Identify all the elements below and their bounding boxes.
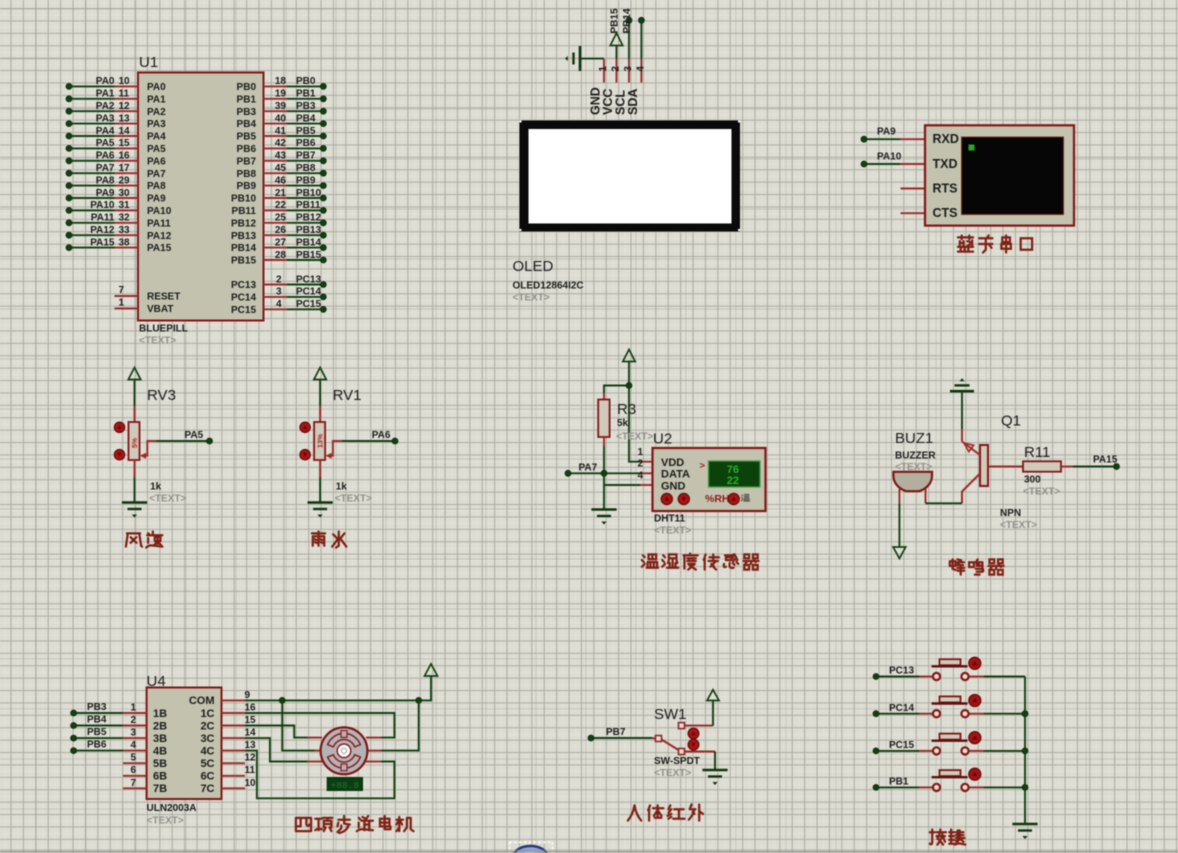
U1 pin PC15 (pin 4) right: [264, 308, 288, 310]
svg-text:PB9: PB9: [296, 175, 316, 186]
U1 pin PA2 (pin 12) left: [69, 110, 115, 112]
U4 pin 1C (pin 16): [222, 712, 246, 714]
svg-text:3B: 3B: [153, 733, 167, 745]
svg-text:PB8: PB8: [296, 163, 316, 174]
svg-text:PA6: PA6: [96, 151, 115, 162]
svg-text:PB10: PB10: [296, 188, 321, 199]
U4 pin 5B (pin 5): [123, 762, 147, 764]
U2 DHT11 body: [653, 448, 766, 511]
svg-text:PA6: PA6: [147, 156, 166, 167]
svg-text:4: 4: [635, 66, 646, 72]
svg-text:13: 13: [119, 113, 131, 124]
svg-text:PB4: PB4: [237, 119, 257, 130]
svg-text:PB13: PB13: [296, 225, 321, 236]
svg-text:<TEXT>: <TEXT>: [654, 768, 691, 779]
wire button PB1 to bus: [969, 786, 984, 788]
stepper motor bottom pole: [328, 755, 361, 769]
wire button PC14 to bus: [969, 713, 984, 715]
svg-text:PA3: PA3: [96, 113, 115, 124]
U4 pin COM (pin 9): [222, 699, 246, 701]
ground flipped (Q1 emitter): [959, 378, 964, 381]
U1 pin PA7 (pin 17) left: [69, 172, 115, 174]
wire COM to motor left-center: [282, 700, 314, 750]
svg-text:PA15: PA15: [1093, 455, 1118, 466]
U4 pin 2B (pin 2): [123, 725, 147, 727]
SW1 bottom throw contact: [679, 749, 685, 755]
RV3 wiper arrow: [140, 453, 146, 459]
RV3 potentiometer body: [129, 422, 140, 460]
svg-text:PA4: PA4: [96, 126, 115, 137]
svg-text:7B: 7B: [153, 783, 167, 795]
svg-text:PC15: PC15: [231, 305, 256, 316]
U1 pin PC14 (pin 3) right: [264, 296, 288, 298]
svg-text:PA9: PA9: [96, 188, 115, 199]
svg-text:R11: R11: [1024, 444, 1050, 461]
SW1 pole contact: [652, 737, 656, 740]
svg-text:GND: GND: [661, 481, 686, 493]
svg-text:PA7: PA7: [147, 169, 166, 180]
wire wiper to PA5: [156, 440, 209, 442]
svg-text:2: 2: [611, 66, 622, 72]
node PB6 terminal: [74, 750, 123, 752]
svg-text:RV3: RV3: [147, 387, 176, 404]
svg-text:PC15: PC15: [296, 299, 321, 310]
U4 pin 6C (pin 11): [222, 775, 246, 777]
buzzer BUZ1 body: [893, 472, 932, 491]
wire 3C to motor left-bottom: [245, 738, 308, 761]
power arrow (RV3): [128, 368, 140, 380]
svg-text:4: 4: [276, 299, 282, 310]
node PA10 terminal: [864, 163, 900, 165]
svg-text:<TEXT>: <TEXT>: [335, 494, 372, 505]
svg-text:1k: 1k: [336, 482, 348, 493]
U4 ULN2003A body: [147, 688, 222, 800]
push button PC14: [919, 713, 932, 715]
svg-text:<TEXT>: <TEXT>: [147, 816, 184, 827]
ground (DHT11): [591, 508, 616, 511]
arrow terminal down (buzzer): [893, 547, 906, 559]
svg-text:1C: 1C: [200, 708, 214, 720]
svg-text:16: 16: [245, 703, 257, 714]
Q1 collector: [962, 474, 980, 504]
svg-text:PA3: PA3: [147, 119, 166, 130]
svg-text:1k: 1k: [150, 482, 162, 493]
DHT11 temperature unit glyph: [741, 494, 749, 501]
button PB1 actuator: [969, 768, 981, 780]
node PA7 terminal: [568, 472, 640, 474]
svg-text:PB10: PB10: [231, 194, 256, 205]
RV1 up actuator button: [300, 422, 310, 432]
svg-text:76: 76: [727, 464, 739, 476]
svg-text:41: 41: [275, 126, 287, 137]
U1 pin PA6 (pin 16) left: [69, 160, 115, 162]
RV3 up actuator button: [114, 422, 124, 432]
U1 pin PA12 (pin 33) left: [69, 234, 115, 236]
svg-text:1B: 1B: [153, 708, 167, 720]
node PB3 terminal: [74, 712, 123, 714]
svg-text:7: 7: [130, 778, 136, 789]
svg-text:PB12: PB12: [296, 213, 321, 224]
svg-text:6B: 6B: [153, 771, 167, 783]
node PA15 terminal: [1114, 464, 1120, 470]
power VCC arrow (OLED): [610, 33, 622, 46]
svg-text:PA1: PA1: [147, 94, 166, 105]
svg-text:31: 31: [119, 200, 131, 211]
OLED pin 2 VCC: [616, 59, 618, 83]
svg-text:2C: 2C: [200, 720, 214, 732]
svg-text:1: 1: [118, 298, 124, 309]
stepper motor angle display: [327, 778, 362, 791]
svg-text:PA1: PA1: [96, 89, 115, 100]
svg-text:<TEXT>: <TEXT>: [139, 336, 176, 347]
transistor Q1 base bar: [980, 445, 988, 486]
junction node COM-left: [279, 698, 285, 704]
svg-text:27: 27: [275, 237, 287, 248]
svg-text:SW-SPDT: SW-SPDT: [654, 756, 700, 767]
DHT11 temperature button: [728, 493, 739, 504]
U1 pin PB10 (pin 21) right: [264, 197, 288, 199]
node PB14 terminal: [640, 20, 642, 59]
svg-text:12: 12: [245, 753, 257, 764]
svg-text:5%: 5%: [132, 437, 139, 448]
svg-text:PA2: PA2: [96, 101, 115, 112]
svg-text:38: 38: [119, 237, 131, 248]
svg-text:RXD: RXD: [933, 132, 959, 146]
U4 pin 1B (pin 1): [123, 712, 147, 714]
U1 pin PB11 (pin 22) right: [264, 209, 288, 211]
svg-text:NPN: NPN: [1000, 508, 1021, 519]
U1 RESET pin 7: [115, 295, 139, 297]
svg-text:22: 22: [275, 200, 287, 211]
svg-text:+88.8: +88.8: [331, 780, 360, 791]
wire button PC15 to bus: [969, 750, 984, 752]
svg-text:PA5: PA5: [147, 144, 166, 155]
svg-text:PB4: PB4: [296, 113, 316, 124]
wire 2C to motor left-top: [245, 726, 308, 738]
svg-text:PA0: PA0: [96, 76, 115, 87]
svg-text:COM: COM: [189, 695, 215, 707]
svg-text:CTS: CTS: [933, 206, 958, 220]
svg-text:PB6: PB6: [296, 138, 316, 149]
svg-text:PB11: PB11: [296, 200, 321, 211]
svg-text:PA8: PA8: [147, 181, 166, 192]
svg-text:<TEXT>: <TEXT>: [654, 526, 691, 537]
svg-text:BUZZER: BUZZER: [895, 450, 936, 461]
U1 pin PB8 (pin 45) right: [264, 172, 288, 174]
svg-text:PB5: PB5: [87, 727, 107, 738]
wire bottom contact to ground: [685, 751, 716, 753]
svg-text:PB12: PB12: [231, 218, 256, 229]
ground (RV1): [308, 501, 333, 504]
svg-text:5B: 5B: [153, 758, 167, 770]
DHT11 humidity up button: [661, 493, 672, 504]
U1 pin PA15 (pin 38) left: [69, 247, 115, 249]
ground (RV3): [122, 501, 147, 504]
svg-text:3: 3: [130, 728, 136, 739]
U4 pin 6B (pin 6): [123, 775, 147, 777]
svg-text:43: 43: [275, 151, 287, 162]
U4 pin 7C (pin 10): [222, 787, 246, 789]
svg-text:SDA: SDA: [626, 89, 640, 115]
junction nodes on bus: [1022, 711, 1028, 717]
RV1 down actuator button: [300, 450, 310, 460]
svg-text:3C: 3C: [200, 733, 214, 745]
bluetooth screen: [962, 137, 1064, 215]
taskbar icon peeking at bottom: [514, 846, 547, 853]
node PA9 terminal: [864, 138, 900, 140]
wire power to R3 top: [604, 386, 629, 394]
DHT11 green display: [709, 461, 761, 487]
svg-text:14: 14: [245, 728, 257, 739]
U1 pin PA8 (pin 29) left: [69, 185, 115, 187]
U1 pin PA3 (pin 13) left: [69, 123, 115, 125]
svg-text:PA5: PA5: [185, 430, 204, 441]
svg-text:DATA: DATA: [661, 469, 690, 481]
svg-text:<TEXT>: <TEXT>: [616, 432, 653, 443]
U4 pin 5C (pin 12): [222, 762, 246, 764]
wire top contact to power: [685, 725, 714, 727]
svg-text:1: 1: [637, 447, 643, 458]
svg-text:33: 33: [119, 225, 131, 236]
svg-text:22: 22: [727, 475, 739, 487]
U1 pin PB14 (pin 27) right: [264, 247, 288, 249]
node PA5 terminal: [207, 438, 213, 444]
svg-text:PB15: PB15: [296, 250, 321, 261]
OLED display white screen: [529, 129, 732, 224]
wire 1C to motor right-top: [245, 713, 394, 738]
RV3 down actuator button: [114, 450, 124, 460]
SW1 actuator buttons: [688, 728, 699, 739]
svg-text:%RH: %RH: [705, 493, 730, 505]
svg-text:PB6: PB6: [87, 740, 107, 751]
svg-text:26: 26: [275, 225, 287, 236]
wire motor right-center to COM: [382, 700, 419, 750]
stepper motor body: [321, 727, 368, 774]
svg-text:4: 4: [130, 740, 136, 751]
svg-text:6: 6: [130, 765, 136, 776]
svg-text:PC13: PC13: [296, 274, 321, 285]
U1 pin PB15 (pin 28) right: [264, 259, 288, 261]
RV1 wiper arrow: [326, 453, 332, 459]
U4 pin 3B (pin 3): [123, 737, 147, 739]
node PB5 terminal: [74, 737, 123, 739]
U1 pin PA0 (pin 10) left: [69, 85, 115, 87]
U4 pin 3C (pin 14): [222, 737, 246, 739]
wire to ground (RV3): [134, 478, 136, 503]
wire button PC13 to bus: [969, 676, 984, 678]
svg-text:3: 3: [623, 66, 634, 72]
U1 pin PB13 (pin 26) right: [264, 234, 288, 236]
svg-text:SW1: SW1: [654, 706, 687, 723]
svg-text:PA2: PA2: [147, 107, 166, 118]
svg-text:11: 11: [119, 89, 130, 100]
bluetooth module body: [925, 125, 1074, 225]
power arrow (RV1): [314, 368, 326, 380]
wire wiper to PA6: [342, 440, 395, 442]
stepper motor pins: [308, 737, 323, 739]
svg-text:PA11: PA11: [147, 218, 171, 229]
svg-text:5: 5: [130, 753, 136, 764]
OLED pin 1 GND: [603, 59, 605, 83]
svg-text:PA11: PA11: [91, 213, 115, 224]
svg-text:PA10: PA10: [877, 152, 902, 163]
U1 pin PB1 (pin 19) right: [264, 98, 288, 100]
wire 4C to motor right-bottom: [245, 751, 394, 799]
push button PB1: [919, 786, 932, 788]
U4 pin 4B (pin 4): [123, 750, 147, 752]
svg-text:19: 19: [275, 89, 287, 100]
svg-text:PA8: PA8: [96, 175, 115, 186]
svg-text:18: 18: [275, 76, 287, 87]
svg-text:40: 40: [275, 113, 287, 124]
svg-text:PB3: PB3: [87, 702, 107, 713]
svg-text:21: 21: [275, 188, 287, 199]
OLED pin 3 SCL: [628, 59, 630, 83]
svg-text:2: 2: [130, 715, 136, 726]
node PC15 terminal: [876, 750, 919, 752]
svg-text:TXD: TXD: [933, 157, 958, 171]
node PB1 terminal: [876, 786, 919, 788]
svg-text:1: 1: [598, 66, 609, 72]
RV3 top lead: [134, 406, 136, 423]
svg-text:3: 3: [276, 287, 282, 298]
svg-text:PA15: PA15: [147, 243, 172, 254]
svg-text:PB3: PB3: [237, 107, 257, 118]
svg-text:42: 42: [275, 138, 287, 149]
svg-text:OLED: OLED: [513, 258, 554, 275]
svg-text:RV1: RV1: [333, 387, 362, 404]
svg-text:PB0: PB0: [237, 82, 257, 93]
svg-text:PA9: PA9: [877, 127, 896, 138]
svg-text:28: 28: [275, 250, 287, 261]
U4 pin 4C (pin 13): [222, 750, 246, 752]
svg-text:11: 11: [245, 765, 256, 776]
svg-text:PB1: PB1: [237, 94, 257, 105]
button PC13 actuator: [969, 657, 981, 669]
U1 pin PB6 (pin 42) right: [264, 147, 288, 149]
svg-text:17: 17: [119, 163, 131, 174]
junction node COM-right: [416, 698, 422, 704]
svg-text:16: 16: [119, 151, 131, 162]
buzzer left pin to arrow terminal: [898, 489, 900, 503]
wire R3 bottom to PA7 net: [603, 446, 605, 473]
svg-text:BUZ1: BUZ1: [895, 430, 933, 447]
svg-text:<TEXT>: <TEXT>: [513, 293, 550, 304]
U1 pin PB4 (pin 40) right: [264, 123, 288, 125]
svg-text:13%: 13%: [318, 433, 325, 448]
buzzer right pin: [925, 489, 927, 503]
svg-text:PB11: PB11: [232, 206, 257, 217]
svg-text:32: 32: [119, 213, 131, 224]
U1 BLUEPILL chip body: [138, 73, 264, 321]
svg-text:15: 15: [119, 138, 131, 149]
svg-text:PC15: PC15: [889, 740, 914, 751]
U1 pin PA10 (pin 31) left: [69, 209, 115, 211]
push button PC13: [919, 676, 932, 678]
svg-text:PA9: PA9: [147, 194, 166, 205]
svg-text:6C: 6C: [200, 771, 214, 783]
stepper motor shaft: [337, 744, 351, 758]
svg-text:45: 45: [275, 163, 287, 174]
caption wind-speed (feng su): [126, 533, 142, 546]
OLED pin 4 SDA: [640, 59, 642, 83]
svg-text:PA5: PA5: [96, 138, 115, 149]
svg-text:15: 15: [245, 715, 257, 726]
svg-text:ULN2003A: ULN2003A: [147, 803, 197, 814]
svg-text:300: 300: [1024, 475, 1041, 486]
svg-text:7C: 7C: [200, 783, 214, 795]
wire power rail down to VDD pin: [629, 386, 640, 462]
U1 pin PA4 (pin 14) left: [69, 135, 115, 137]
svg-text:<TEXT>: <TEXT>: [149, 494, 186, 505]
svg-text:10: 10: [119, 76, 131, 87]
U2 pin 1 VDD: [640, 461, 653, 463]
wire to ground (RV1): [319, 478, 321, 503]
caption temp-humidity sensor (wen shi du chuan gan qi): [642, 554, 658, 567]
svg-text:PB1: PB1: [296, 89, 316, 100]
svg-text:PB4: PB4: [87, 715, 107, 726]
wire PA10 pin TXD: [900, 163, 925, 165]
button PC15 actuator: [969, 732, 981, 744]
svg-text:PB7: PB7: [606, 727, 626, 738]
svg-text:4B: 4B: [153, 745, 167, 757]
svg-text:PA4: PA4: [147, 132, 166, 143]
U2 pin 2 DATA: [640, 472, 653, 474]
svg-text:2B: 2B: [153, 720, 167, 732]
stepper motor top pole: [328, 733, 361, 747]
svg-text:PB5: PB5: [296, 126, 316, 137]
caption 4-phase stepper (si xiang bu jin dian ji): [296, 818, 311, 831]
svg-text:PA6: PA6: [372, 430, 391, 441]
svg-text:PB9: PB9: [237, 181, 257, 192]
svg-text:PC13: PC13: [889, 666, 914, 677]
svg-text:RTS: RTS: [933, 181, 958, 195]
power arrow (SW1): [707, 690, 719, 701]
RV3 bottom lead: [134, 460, 136, 478]
svg-text:9: 9: [245, 690, 251, 701]
svg-text:PA7: PA7: [579, 463, 598, 474]
svg-text:PB1: PB1: [889, 777, 909, 788]
svg-text:PB13: PB13: [231, 231, 256, 242]
svg-text:PB5: PB5: [237, 132, 257, 143]
U2 pin 4 GND: [640, 484, 653, 486]
node PB4 terminal: [74, 725, 123, 727]
svg-text:39: 39: [275, 101, 287, 112]
wire buzzer to Q1 collector: [926, 502, 963, 504]
ground (SW1): [702, 769, 727, 772]
Q1 base lead to R11: [988, 466, 1023, 468]
U4 pin 7B (pin 7): [123, 787, 147, 789]
U1 pin PB9 (pin 46) right: [264, 185, 288, 187]
svg-text:PA0: PA0: [147, 82, 166, 93]
node PC13 terminal: [876, 676, 919, 678]
U1 VBAT pin 1: [115, 308, 139, 310]
svg-text:4C: 4C: [200, 745, 214, 757]
wire COM rail: [245, 676, 431, 700]
svg-text:Q1: Q1: [1001, 413, 1021, 430]
node PB15 terminal: [628, 20, 630, 59]
push button PC15: [919, 750, 932, 752]
svg-text:PB3: PB3: [296, 101, 316, 112]
junction node at power: [626, 383, 632, 389]
svg-text:30: 30: [119, 188, 131, 199]
svg-text:13: 13: [245, 740, 257, 751]
resistor R3: [603, 393, 605, 400]
svg-text:>: >: [700, 461, 706, 472]
svg-text:14: 14: [119, 126, 131, 137]
svg-text:5k: 5k: [617, 418, 629, 429]
SW1 lever: [662, 740, 679, 751]
